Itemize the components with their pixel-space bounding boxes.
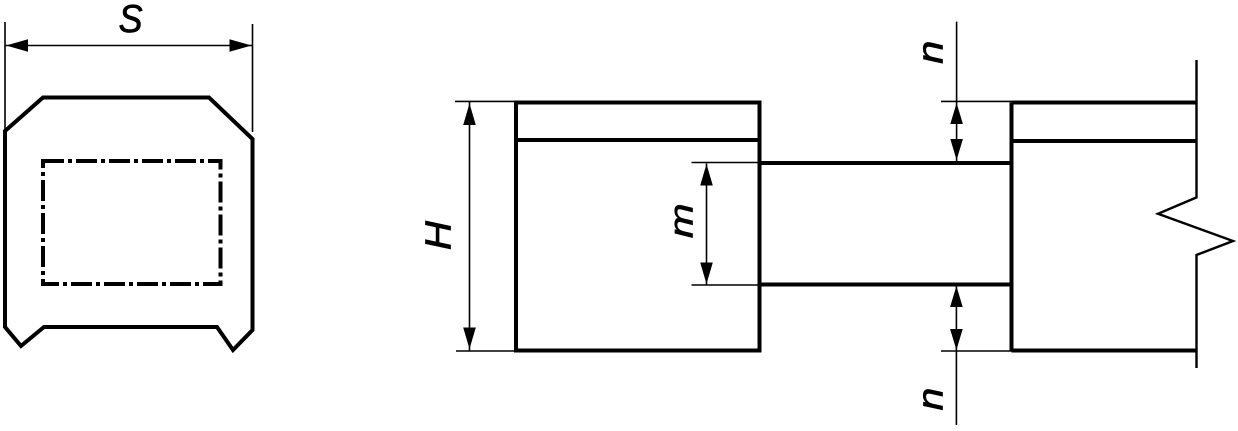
- dimension n bottom dimension line: [955, 286, 957, 426]
- dimension n top arrowhead down: [950, 139, 963, 160]
- right view: right block top edge: [1012, 101, 1197, 105]
- right view: slot top line: [760, 161, 1012, 165]
- right view: left block outline: [516, 103, 760, 351]
- left view: hole centre-line rectangle (dash-dot): [43, 161, 221, 284]
- dimension n bottom extension line: [941, 350, 1012, 352]
- dimension m label: [664, 203, 701, 238]
- dimension m dimension line: [706, 164, 708, 285]
- dimension H extension line bottom: [456, 350, 516, 352]
- dimension H extension line top: [455, 100, 516, 102]
- dimension H label: [419, 221, 460, 251]
- dimension m extension line bottom: [692, 284, 760, 286]
- left view: nut body outline: [5, 98, 253, 351]
- dimension n top label: [911, 41, 951, 64]
- right view: right block left edge: [1010, 103, 1014, 351]
- right view: right block bottom edge: [1012, 349, 1197, 353]
- dimension S extension line right: [252, 24, 254, 132]
- svg-text:n: n: [911, 388, 951, 411]
- dimension n bottom label: [911, 388, 951, 411]
- dimension n bottom arrowhead down: [950, 329, 963, 350]
- dimension S arrowhead right: [230, 39, 252, 52]
- dimension S label: [119, 0, 143, 40]
- dimension n top extension line: [941, 100, 1012, 102]
- svg-text:S: S: [119, 0, 143, 40]
- svg-text:n: n: [911, 41, 951, 64]
- right view: left block top face line: [516, 138, 760, 142]
- dimension n top dimension line: [956, 22, 958, 161]
- dimension S dimension line: [5, 45, 253, 47]
- dimension n top arrowhead up: [950, 103, 963, 124]
- dimension H arrowhead down: [463, 328, 476, 350]
- dimension m arrowhead down: [700, 263, 713, 285]
- dimension H dimension line: [469, 102, 471, 352]
- dimension n bottom arrowhead up: [950, 286, 963, 307]
- right view: right block top face line: [1012, 139, 1197, 143]
- svg-text:H: H: [419, 221, 460, 251]
- svg-text:m: m: [664, 203, 701, 238]
- dimension m extension line top: [692, 162, 760, 164]
- dimension S arrowhead left: [6, 39, 28, 52]
- right view: slot bottom line: [760, 283, 1012, 287]
- right view: break line (zigzag): [1158, 60, 1233, 368]
- dimension S extension line left: [4, 22, 6, 131]
- dimension H arrowhead up: [463, 104, 476, 126]
- dimension m arrowhead up: [700, 164, 713, 186]
